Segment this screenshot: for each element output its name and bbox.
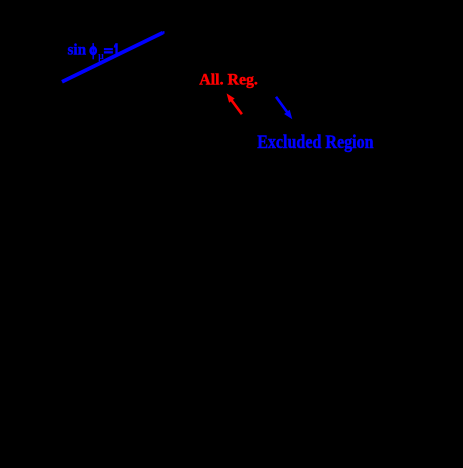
arrow red pointing up-left to allowed region	[227, 93, 242, 114]
label Excluded Region	[257, 132, 374, 153]
label sin phi_mu = 1	[68, 42, 118, 63]
wire	[62, 31, 165, 82]
svg-text:Excluded Region: Excluded Region	[257, 132, 374, 153]
phi glyph drawn	[91, 47, 96, 54]
arrow blue pointing down-right to excluded region	[276, 97, 292, 120]
blue diagonal line sin phi = 1 boundary	[62, 33, 163, 82]
svg-text:sin: sin	[68, 42, 87, 59]
svg-text:μ: μ	[98, 51, 104, 62]
svg-text:All. Reg.: All. Reg.	[199, 72, 258, 89]
label All. Reg.	[199, 72, 258, 89]
